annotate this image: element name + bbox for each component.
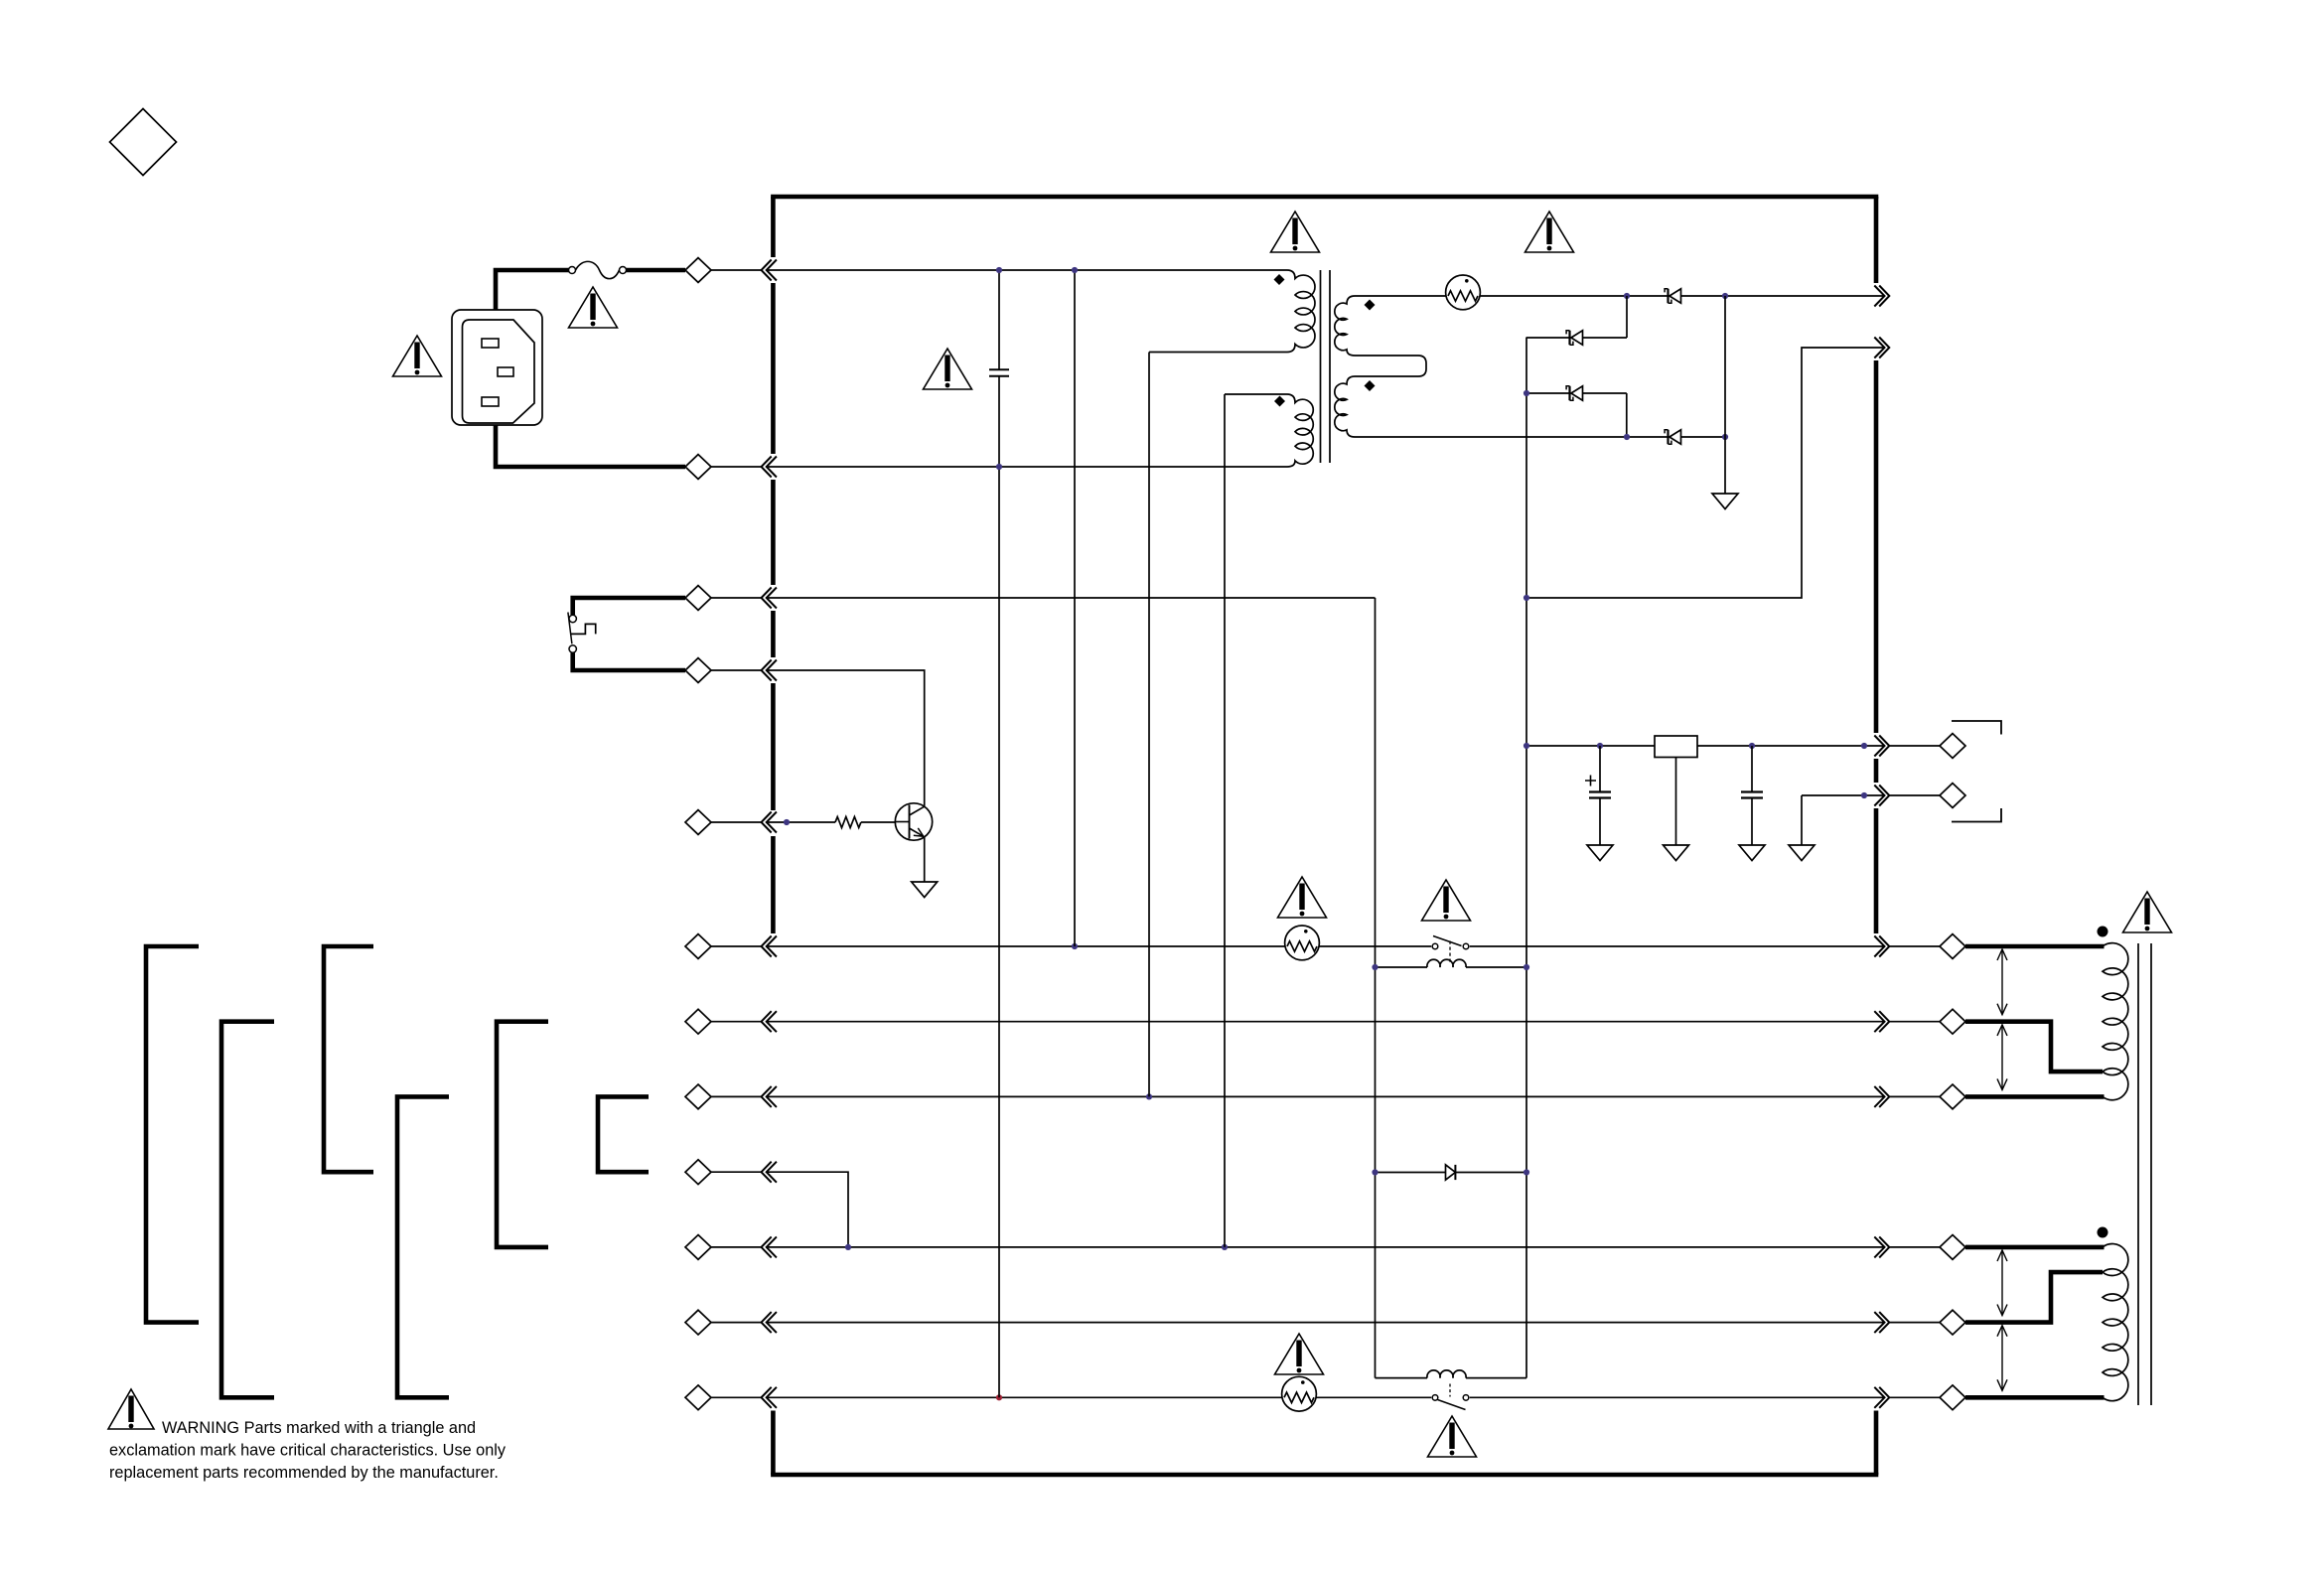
wire: AC neutral from inlet to connector P1-2 (thick)	[496, 425, 685, 467]
warning triangle above RL1	[1422, 880, 1471, 921]
junction y=829	[784, 819, 790, 825]
transistor Q1	[895, 803, 932, 840]
reference diamond mark (sheet corner)	[110, 109, 177, 176]
wire: vertical x=1157 from T1 primary	[1148, 353, 1150, 1097]
wire: OT2 tap2 (thick)	[1965, 1272, 2103, 1323]
wire: chevron to pad right y=1104.4	[1889, 1095, 1940, 1097]
wiring bracket B5	[497, 1022, 548, 1247]
PCB outline right edge segment 2	[1874, 360, 1879, 733]
board edge connector chevron right y=801	[1874, 786, 1884, 806]
wire: vertical x=1082	[1074, 270, 1076, 946]
transformer T1 primary winding P1	[1149, 270, 1315, 353]
wire: D5 row right	[1455, 1172, 1526, 1174]
wire: D3 row y=396	[1526, 392, 1627, 394]
board edge connector chevron right y=1104.4	[1874, 1086, 1884, 1107]
relay RL2 coil	[1427, 1370, 1466, 1378]
PCB outline left edge segment 1	[771, 197, 776, 257]
ground (C4)	[1587, 845, 1613, 861]
wire: OT1 tap2 (thick)	[1965, 1022, 2103, 1072]
fuse F1	[569, 261, 627, 278]
OT2 tap adjust arrow 1	[1997, 1250, 2007, 1316]
AC inlet pin 2 (earth)	[498, 367, 513, 376]
wiring bracket B6	[598, 1096, 649, 1172]
relay RL1 coil	[1427, 959, 1466, 967]
board edge connector chevron left y=828	[762, 812, 772, 833]
T1 S2 polarity mark	[1365, 380, 1376, 391]
warning triangle at AC inlet	[393, 336, 442, 376]
capacitor C5	[1741, 746, 1763, 845]
wire: S1 top rail y=298	[1480, 295, 1884, 297]
connector pad (diamond) left row y=602	[685, 586, 711, 611]
board edge connector chevron left y=470	[762, 457, 772, 478]
thermistor TH2	[1282, 1376, 1317, 1411]
board edge connector chevron left y=1180.2	[762, 1162, 772, 1183]
wire: rail y=675 to Q1 collector	[767, 670, 925, 806]
wire: vertical x=1006 above cap C2	[998, 270, 1000, 369]
PCB outline left edge segment 4	[771, 611, 776, 657]
diode D3	[1566, 386, 1582, 400]
wire: rail y=829 chevron to resistor	[767, 821, 835, 823]
transformer T1 primary winding P2	[1225, 394, 1313, 467]
junction x=1537 y=396	[1524, 390, 1529, 396]
connector pad (diamond) right row y=1407.3	[1940, 1385, 1965, 1410]
wire: vertical x=1737 to ground	[1724, 296, 1726, 494]
junction x=1764 y=751	[1749, 743, 1755, 749]
wire: rail y=1333	[767, 1322, 1884, 1324]
junction x=1737 y=298	[1722, 293, 1728, 299]
output transformer OT2 winding	[2103, 1244, 2128, 1401]
wiring bracket B4	[397, 1096, 449, 1397]
board edge connector chevron right y=1255.9	[1874, 1236, 1884, 1257]
PCB outline right edge segment 1	[1874, 197, 1879, 283]
warning triangle above cap C2	[924, 349, 972, 389]
OT2 phase dot	[2098, 1227, 2108, 1238]
relay RL1 contact	[1432, 936, 1469, 963]
board edge connector chevron right y=298	[1874, 286, 1884, 307]
connector pad (diamond) left row y=1407.3	[685, 1385, 711, 1410]
connector pad (diamond) left row y=1331.6	[685, 1310, 711, 1335]
wire: rail y=1409 right of relay contact	[1470, 1396, 1884, 1398]
wire: D2 row y=340	[1526, 337, 1628, 339]
wire: switch top to connector (thick)	[573, 598, 685, 615]
PCB outline left edge segment 5	[771, 683, 776, 810]
connector pad (diamond) left row y=272	[685, 258, 711, 283]
junction x=1638 y=298	[1624, 293, 1630, 299]
wire: OT2 tap1 (thick)	[1965, 1245, 2105, 1250]
board edge connector chevron left y=1028.7	[762, 1011, 772, 1032]
warning triangle below RL2	[1428, 1416, 1477, 1457]
wire: rail y=1105	[767, 1095, 1884, 1097]
ground (output return)	[1789, 845, 1815, 861]
ground (bridge rectifier centre)	[1712, 494, 1738, 509]
junction x=1537 y=974	[1524, 964, 1529, 970]
connector pad (diamond) left row y=828	[685, 810, 711, 835]
PCB outline right edge segment 3	[1874, 759, 1879, 783]
wire: pad to board edge y=1331.6	[711, 1322, 762, 1324]
PCB outline bottom edge	[771, 1473, 1878, 1478]
wire: pad to board edge y=470	[711, 466, 762, 468]
wire: pad to board edge y=1104.4	[711, 1095, 762, 1097]
transformer T1 core	[1321, 270, 1331, 463]
AC inlet pin 3 (neutral)	[482, 397, 499, 406]
wire: rail y=1409 thermistor to relay contact	[1316, 1396, 1431, 1398]
connector pad (diamond) right row y=1331.6	[1940, 1310, 1965, 1335]
wire: y=801 to ground	[1801, 795, 1803, 845]
junction x=1157 y=1105	[1146, 1093, 1152, 1099]
capacitor C2 (line filter)	[989, 369, 1009, 375]
warning triangle above T1	[1271, 212, 1320, 252]
PCB outline left edge segment 6	[771, 836, 776, 933]
connector pad (diamond) left row y=953	[685, 934, 711, 959]
warning triangle right of T1	[1525, 212, 1574, 252]
ground (Q1 emitter)	[912, 882, 938, 898]
board edge connector chevron left y=1407.3	[762, 1387, 772, 1408]
wire: AC live from inlet to fuse (thick)	[496, 270, 569, 310]
board edge connector chevron right y=953	[1874, 936, 1884, 957]
output transformer OT1 winding	[2103, 943, 2128, 1100]
wire: rail y=953 left of thermistor TH3	[767, 945, 1285, 947]
board edge connector chevron left y=1104.4	[762, 1086, 772, 1107]
wire: pad to board edge y=1180.2	[711, 1171, 762, 1173]
junction x=1082 y=272	[1072, 267, 1078, 273]
wire: rail y=751 regulator output	[1697, 745, 1884, 747]
wire: rail y=1409 left of thermistor	[767, 1396, 1282, 1398]
wire: chevron to pad right y=953	[1889, 945, 1940, 947]
wire: rail y=953 right of relay contact	[1470, 945, 1884, 947]
wire: D5 row left	[1376, 1172, 1446, 1174]
warning triangle above TH3	[1278, 877, 1327, 918]
cable bracket above right pads	[1952, 721, 2001, 735]
wire: chevron to pad right y=1331.6	[1889, 1322, 1940, 1324]
wire: Q1 emitter to ground	[924, 837, 926, 883]
junction x=1384.5 y=974	[1372, 964, 1378, 970]
connector pad (diamond) right row y=1255.9	[1940, 1235, 1965, 1260]
wire: pad to board edge y=602	[711, 597, 762, 599]
wire: vertical x=1006 below cap C2	[998, 376, 1000, 1398]
OT1 tap adjust arrow 2	[1997, 1025, 2007, 1090]
wire: relay RL2 coil line	[1376, 1377, 1527, 1379]
wire: rail y=953 thermistor to relay contact	[1319, 945, 1431, 947]
OT2 tap adjust arrow 2	[1997, 1326, 2007, 1391]
connector pad (diamond) right row y=1104.4	[1940, 1084, 1965, 1109]
wiring bracket B1	[146, 946, 199, 1323]
wire: resistor to Q1 base	[861, 821, 895, 823]
OT1 tap adjust arrow 1	[1997, 949, 2007, 1015]
svg-text:exclamation mark have critical: exclamation mark have critical character…	[109, 1442, 507, 1460]
AC inlet pin 1 (live)	[482, 339, 499, 348]
relay RL2 contact	[1432, 1384, 1469, 1410]
junction x=1537 y=751	[1524, 743, 1529, 749]
connector pad (diamond) left row y=1255.9	[685, 1235, 711, 1260]
resistor R1	[835, 817, 861, 828]
junction x=1638 y=440	[1624, 434, 1630, 440]
junction x=1537 y=602	[1524, 595, 1529, 601]
PCB outline left edge segment 2	[771, 283, 776, 454]
wire: AC neutral rail y=470	[767, 466, 1287, 468]
connector pad (diamond) left row y=675	[685, 658, 711, 683]
wire: chevron to pad right y=801	[1889, 794, 1940, 796]
board edge connector chevron right y=1407.3	[1874, 1387, 1884, 1408]
diode D2	[1566, 331, 1582, 345]
board edge connector chevron left y=1331.6	[762, 1312, 772, 1333]
junction x=1384.5 y=1180.5	[1372, 1169, 1378, 1175]
wire: AC live rail y=272	[767, 269, 1287, 271]
cable bracket below right pads	[1952, 808, 2001, 822]
wire: OT2 tap3 (thick)	[1965, 1395, 2105, 1400]
T1 P1 polarity mark	[1274, 274, 1285, 285]
junction x=1006 y=1409 (red)	[996, 1394, 1002, 1400]
board edge connector chevron left y=602	[762, 588, 772, 609]
wire: pad to board edge y=272	[711, 269, 762, 271]
svg-text:WARNING Parts marked with a tr: WARNING Parts marked with a triangle and	[162, 1419, 476, 1437]
warning triangle at OT1	[2123, 892, 2172, 932]
junction x=1082 y=953	[1072, 943, 1078, 949]
junction x=1233 y=1257	[1222, 1244, 1228, 1250]
wire: vertical x=1233 from T1 primary 2	[1224, 394, 1226, 1247]
wiring bracket B3	[324, 946, 373, 1172]
warning triangle at note	[108, 1389, 154, 1429]
PCB outline top edge	[771, 195, 1878, 200]
wire: OT1 tap3 (thick)	[1965, 1094, 2105, 1099]
PCB outline right edge segment 5	[1874, 1411, 1879, 1476]
connector pad (diamond) left row y=1104.4	[685, 1084, 711, 1109]
diode D1	[1665, 289, 1680, 303]
wire: chevron to pad right y=1028.7	[1889, 1021, 1940, 1023]
connector pad (diamond) left row y=470	[685, 455, 711, 480]
wire: vertical x=1537	[1525, 338, 1527, 1378]
OT1 phase dot	[2098, 927, 2108, 937]
wire: pad to board edge y=1028.7	[711, 1021, 762, 1023]
thermistor TH3	[1285, 926, 1320, 960]
board edge connector chevron right y=1028.7	[1874, 1011, 1884, 1032]
thermistor TH1	[1446, 275, 1481, 310]
connector pad (diamond) right row y=801	[1940, 784, 1965, 808]
junction x=1006 y=272	[996, 267, 1002, 273]
capacitor C4 (electrolytic)	[1585, 746, 1611, 845]
wire: fuse to connector P1-1 (thick)	[627, 268, 686, 273]
wire: relay RL1 coil line right	[1466, 966, 1526, 968]
board edge connector chevron right y=1331.6	[1874, 1312, 1884, 1333]
wire: relay RL1 coil line left	[1376, 966, 1428, 968]
wire: pad to board edge y=828	[711, 821, 762, 823]
junction x=854 y=1257	[845, 1244, 851, 1250]
wire: pad to board edge y=953	[711, 945, 762, 947]
wire: chevron to pad right y=1255.9	[1889, 1246, 1940, 1248]
junction x=1537 y=1180.5	[1524, 1169, 1529, 1175]
connector pad (diamond) left row y=1028.7	[685, 1009, 711, 1034]
ground (regulator)	[1664, 845, 1689, 861]
diode D4	[1665, 430, 1680, 444]
wire: output rail y=801	[1802, 794, 1884, 796]
wire: S2 bottom rail y=440	[1355, 436, 1669, 438]
transformer T1 secondary windings S1+S2	[1335, 296, 1446, 437]
wire: rail y=1257	[767, 1246, 1884, 1248]
board edge connector chevron right y=751	[1874, 736, 1884, 757]
PCB outline left edge segment 3	[771, 480, 776, 585]
board edge connector chevron right y=350	[1874, 338, 1884, 358]
board edge connector chevron left y=1255.9	[762, 1236, 772, 1257]
PCB outline left edge segment 7	[771, 1411, 776, 1476]
warning triangle at fuse	[569, 287, 618, 328]
wire: chevron to pad right y=1407.3	[1889, 1396, 1940, 1398]
regulator IC1	[1655, 736, 1697, 758]
connector pad (diamond) right row y=1028.7	[1940, 1009, 1965, 1034]
wire: pad to board edge y=1255.9	[711, 1246, 762, 1248]
output transformer core	[2138, 943, 2151, 1405]
wire: vertical x=1638 seg2	[1626, 393, 1628, 437]
warning triangle above TH2	[1275, 1334, 1324, 1374]
T1 P2 polarity mark	[1274, 396, 1285, 407]
wire: switched rail y=602 to relay drive	[767, 597, 1376, 599]
wire: switch bottom to connector (thick)	[573, 653, 685, 671]
AC inlet J1 inner face	[463, 320, 535, 423]
connector pad (diamond) left row y=1180.2	[685, 1160, 711, 1185]
wire: rail y=1181 stub to y=1257	[767, 1172, 848, 1247]
power switch SW1 contacts	[568, 613, 596, 653]
junction x=1877 y=751	[1861, 743, 1867, 749]
wire: chevron to pad right y=751	[1889, 745, 1940, 747]
board edge connector chevron left y=675	[762, 660, 772, 681]
ground (C5)	[1739, 845, 1765, 861]
svg-text:replacement parts recommended: replacement parts recommended by the man…	[109, 1464, 499, 1482]
connector pad (diamond) right row y=953	[1940, 934, 1965, 959]
wire: vertical x=1638 seg1	[1626, 296, 1628, 338]
junction x=1611 y=751	[1597, 743, 1603, 749]
AC inlet J1 outer body	[452, 310, 542, 425]
junction x=1006 y=470	[996, 464, 1002, 470]
wiring bracket B2	[221, 1022, 274, 1398]
wire: rail y=751 regulator input	[1526, 745, 1655, 747]
junction x=1877 y=801	[1861, 792, 1867, 798]
T1 S1 polarity mark	[1365, 300, 1376, 311]
wire: D4 to ground node	[1681, 436, 1726, 438]
connector pad (diamond) right row y=751	[1940, 734, 1965, 759]
diode D5	[1446, 1165, 1456, 1180]
wire: regulator ground stem	[1675, 758, 1677, 846]
board edge connector chevron left y=272	[762, 260, 772, 281]
wire: vertical x=1384.5 relay drive	[1375, 598, 1377, 1378]
wire: rail y=1029	[767, 1021, 1884, 1023]
wire: output rail y=350	[1526, 348, 1884, 598]
junction x=1737 y=440	[1722, 434, 1728, 440]
wire: pad to board edge y=1407.3	[711, 1396, 762, 1398]
PCB outline right edge segment 4	[1874, 808, 1879, 933]
wire: OT1 tap1 (thick)	[1965, 944, 2105, 949]
board edge connector chevron left y=953	[762, 936, 772, 957]
wire: pad to board edge y=675	[711, 669, 762, 671]
